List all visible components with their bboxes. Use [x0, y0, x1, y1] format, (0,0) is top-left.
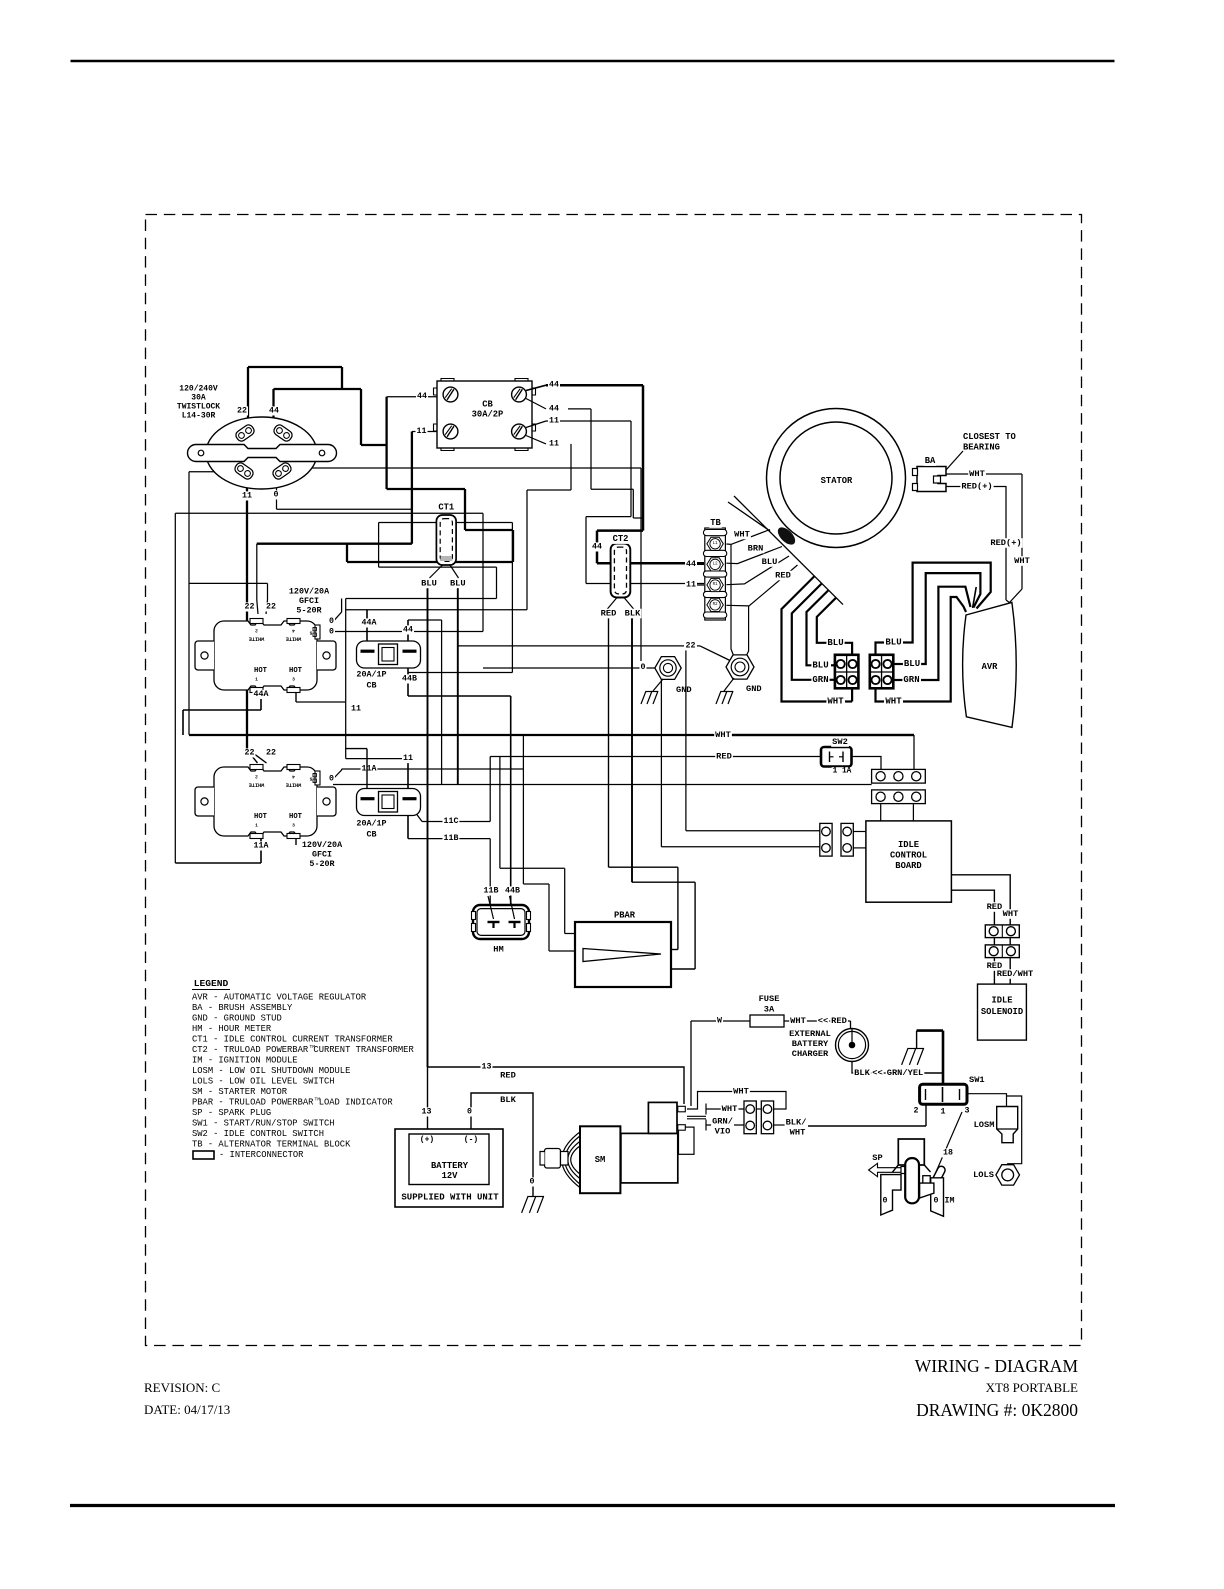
svg-text:DATE: 04/17/13: DATE: 04/17/13 [144, 1402, 230, 1417]
svg-text:VIO: VIO [715, 1127, 731, 1137]
svg-text:11B: 11B [444, 834, 459, 843]
svg-text:XT8 PORTABLE: XT8 PORTABLE [986, 1380, 1078, 1395]
svg-text:GRN/YEL: GRN/YEL [887, 1068, 924, 1078]
svg-text:11B: 11B [484, 887, 499, 896]
svg-text:5: 5 [309, 630, 312, 636]
svg-text:SOLENOID: SOLENOID [981, 1007, 1023, 1017]
svg-text:HM: HM [493, 945, 503, 955]
svg-text:20A/1P: 20A/1P [356, 819, 386, 829]
svg-text:WHT: WHT [969, 469, 985, 479]
svg-text:120V/20A: 120V/20A [289, 587, 330, 597]
svg-text:WHT: WHT [790, 1128, 806, 1138]
svg-text:22: 22 [266, 749, 276, 758]
svg-text:SM - STARTER MOTOR: SM - STARTER MOTOR [192, 1087, 288, 1097]
svg-text:WIRING - DIAGRAM: WIRING - DIAGRAM [915, 1356, 1079, 1376]
svg-text:44: 44 [403, 626, 413, 635]
svg-text:3: 3 [292, 677, 295, 683]
svg-text:2: 2 [255, 774, 258, 780]
svg-text:HOT: HOT [254, 813, 268, 821]
svg-text:SW2: SW2 [832, 737, 848, 747]
svg-text:18: 18 [943, 1149, 953, 1158]
svg-text:TWISTLOCK: TWISTLOCK [177, 403, 220, 412]
svg-text:WHT: WHT [715, 730, 731, 740]
svg-text:11C: 11C [444, 817, 459, 826]
svg-text:WHITE: WHITE [249, 636, 265, 642]
svg-text:2: 2 [255, 628, 258, 634]
svg-text:BLU: BLU [762, 557, 778, 567]
svg-text:4: 4 [292, 774, 295, 780]
svg-text:WHT: WHT [827, 697, 844, 707]
svg-text:12V: 12V [442, 1171, 459, 1181]
svg-text:30A: 30A [191, 394, 206, 403]
svg-text:L14-30R: L14-30R [182, 412, 216, 421]
svg-text:AVR - AUTOMATIC VOLTAGE REGULA: AVR - AUTOMATIC VOLTAGE REGULATOR [192, 993, 367, 1003]
svg-text:0: 0 [329, 617, 334, 626]
svg-text:CT2: CT2 [613, 534, 629, 544]
svg-text:BEARING: BEARING [963, 443, 1000, 453]
svg-text:30A/2P: 30A/2P [472, 410, 504, 420]
svg-text:L2: L2 [713, 562, 718, 566]
svg-text:GRN: GRN [903, 675, 919, 685]
svg-text:4: 4 [292, 628, 295, 634]
svg-text:DRAWING #: 0K2800: DRAWING #: 0K2800 [916, 1400, 1078, 1420]
svg-text:11A: 11A [362, 765, 377, 774]
svg-text:EXTERNAL: EXTERNAL [789, 1029, 831, 1039]
svg-text:11: 11 [403, 754, 413, 763]
svg-text:RED: RED [831, 1016, 847, 1026]
svg-text:SW1: SW1 [969, 1075, 985, 1085]
svg-text:11: 11 [549, 417, 559, 426]
svg-text:44B: 44B [402, 675, 417, 684]
svg-text:R2: R2 [713, 603, 718, 607]
svg-text:LEGEND: LEGEND [194, 978, 229, 989]
svg-text:HOT: HOT [254, 667, 268, 675]
svg-text:0: 0 [329, 775, 334, 784]
svg-text:R1: R1 [713, 583, 718, 587]
svg-text:44: 44 [549, 381, 559, 390]
svg-text:TM: TM [310, 1044, 316, 1050]
svg-text:RED: RED [775, 571, 791, 581]
svg-text:44: 44 [549, 404, 559, 413]
svg-text:CB: CB [366, 681, 376, 691]
svg-text:13: 13 [482, 1063, 492, 1072]
svg-text:L1: L1 [713, 542, 718, 546]
svg-text:11A: 11A [254, 842, 269, 851]
svg-text:22: 22 [686, 641, 696, 650]
svg-text:BATTERY: BATTERY [792, 1039, 829, 1049]
svg-text:BLU: BLU [421, 578, 437, 588]
svg-text:PBAR: PBAR [614, 911, 636, 921]
svg-text:HOT: HOT [289, 667, 303, 675]
svg-text:13: 13 [422, 1108, 432, 1117]
svg-text:LOLS: LOLS [973, 1170, 994, 1180]
svg-text:BATTERY: BATTERY [431, 1161, 469, 1171]
svg-text:RED/WHT: RED/WHT [997, 969, 1034, 979]
svg-text:0: 0 [467, 1108, 472, 1117]
svg-text:GND: GND [746, 684, 762, 694]
svg-text:RED: RED [500, 1071, 516, 1081]
svg-text:0: 0 [274, 491, 279, 500]
svg-text:PBAR - TRULOAD POWERBAR LOAD I: PBAR - TRULOAD POWERBAR LOAD INDICATOR [192, 1098, 393, 1108]
svg-text:IDLE: IDLE [991, 996, 1012, 1006]
svg-text:GFCI: GFCI [299, 596, 319, 606]
svg-text:(-): (-) [464, 1136, 478, 1145]
svg-text:WHT: WHT [1014, 556, 1030, 566]
svg-text:RED(+): RED(+) [961, 482, 992, 492]
svg-text:WHT: WHT [790, 1016, 806, 1026]
svg-text:- INTERCONNECTOR: - INTERCONNECTOR [219, 1150, 304, 1160]
svg-text:BA: BA [925, 456, 936, 466]
svg-text:44A: 44A [362, 619, 377, 628]
svg-text:IM - IGNITION MODULE: IM - IGNITION MODULE [192, 1056, 298, 1066]
svg-text:BLK: BLK [500, 1095, 516, 1105]
svg-text:44: 44 [686, 560, 696, 569]
svg-text:CB: CB [482, 400, 493, 410]
svg-text:CONTROL: CONTROL [890, 851, 927, 861]
svg-text:STATOR: STATOR [821, 476, 853, 486]
svg-text:22: 22 [245, 749, 255, 758]
svg-text:BLU: BLU [827, 638, 843, 648]
svg-text:WHITE: WHITE [249, 782, 265, 788]
svg-text:1: 1 [255, 677, 258, 683]
svg-text:RED: RED [601, 609, 617, 619]
svg-text:GFCI: GFCI [312, 850, 332, 860]
svg-text:3: 3 [292, 823, 295, 829]
svg-text:TB - ALTERNATOR TERMINAL BLOCK: TB - ALTERNATOR TERMINAL BLOCK [192, 1140, 351, 1150]
svg-text:CT1: CT1 [438, 503, 454, 513]
svg-text:IDLE: IDLE [898, 840, 919, 850]
svg-text:LOLS - LOW OIL LEVEL SWITCH: LOLS - LOW OIL LEVEL SWITCH [192, 1077, 335, 1087]
svg-text:2: 2 [914, 1107, 919, 1116]
svg-text:5-20R: 5-20R [309, 859, 335, 869]
svg-text:11: 11 [351, 705, 361, 714]
svg-text:22: 22 [245, 603, 255, 612]
svg-text:44A: 44A [254, 690, 269, 699]
svg-text:0: 0 [329, 628, 334, 637]
svg-text:0: 0 [883, 1197, 888, 1206]
svg-text:<<: << [872, 1068, 882, 1078]
svg-text:WHT: WHT [733, 1087, 749, 1097]
svg-text:SP: SP [872, 1153, 882, 1163]
svg-text:11: 11 [549, 439, 559, 448]
svg-text:22: 22 [237, 407, 247, 416]
svg-text:BLU: BLU [812, 660, 828, 670]
svg-text:BLU: BLU [904, 659, 920, 669]
svg-text:(+): (+) [420, 1136, 434, 1145]
svg-text:GND - GROUND STUD: GND - GROUND STUD [192, 1014, 282, 1024]
svg-text:11: 11 [686, 581, 696, 590]
svg-text:44B: 44B [505, 887, 520, 896]
svg-text:1 1A: 1 1A [833, 768, 852, 776]
svg-text:3: 3 [965, 1107, 970, 1116]
svg-text:120/240V: 120/240V [179, 385, 218, 394]
svg-text:1: 1 [255, 823, 258, 829]
svg-text:120V/20A: 120V/20A [302, 840, 343, 850]
svg-text:REVISION: C: REVISION: C [144, 1380, 220, 1395]
svg-text:1: 1 [941, 1108, 946, 1117]
svg-text:0: 0 [530, 1178, 535, 1187]
svg-text:BA - BRUSH ASSEMBLY: BA - BRUSH ASSEMBLY [192, 1003, 293, 1013]
svg-text:CT1 - IDLE CONTROL CURRENT TRA: CT1 - IDLE CONTROL CURRENT TRANSFORMER [192, 1035, 393, 1045]
svg-text:0: 0 [934, 1197, 939, 1206]
svg-text:W: W [717, 1017, 722, 1026]
svg-text:<<: << [818, 1016, 828, 1026]
svg-text:BLK: BLK [854, 1068, 870, 1078]
svg-text:CT2 - TRULOAD POWERBAR CURRENT: CT2 - TRULOAD POWERBAR CURRENT TRANSFORM… [192, 1045, 414, 1055]
svg-text:BLU: BLU [885, 638, 901, 648]
svg-text:CLOSEST TO: CLOSEST TO [963, 432, 1016, 442]
svg-text:HM - HOUR METER: HM - HOUR METER [192, 1024, 272, 1034]
svg-text:CB: CB [366, 830, 376, 840]
svg-text:AVR: AVR [982, 662, 999, 672]
svg-text:BOARD: BOARD [895, 861, 921, 871]
svg-text:TM: TM [315, 1097, 321, 1103]
svg-text:CHARGER: CHARGER [792, 1049, 829, 1059]
svg-text:SM: SM [595, 1155, 606, 1165]
svg-text:GND: GND [676, 685, 692, 695]
svg-text:RED: RED [987, 902, 1003, 912]
svg-text:20A/1P: 20A/1P [356, 670, 386, 680]
svg-text:BLK: BLK [625, 609, 641, 619]
svg-text:IM: IM [945, 1197, 955, 1206]
svg-text:RED(+): RED(+) [990, 538, 1021, 548]
svg-text:WHITE: WHITE [286, 636, 302, 642]
svg-text:BRN: BRN [748, 544, 764, 554]
svg-text:FUSE: FUSE [759, 994, 780, 1004]
svg-text:WHT: WHT [722, 1104, 738, 1114]
svg-text:GRN/: GRN/ [712, 1117, 733, 1127]
svg-text:LOSM: LOSM [974, 1120, 995, 1130]
svg-text:SUPPLIED WITH UNIT: SUPPLIED WITH UNIT [401, 1193, 499, 1203]
svg-text:BLU: BLU [450, 578, 466, 588]
svg-text:GRN: GRN [812, 675, 828, 685]
svg-text:BLK/: BLK/ [786, 1118, 807, 1128]
svg-text:SW2 - IDLE CONTROL SWITCH: SW2 - IDLE CONTROL SWITCH [192, 1129, 324, 1139]
svg-text:SP - SPARK PLUG: SP - SPARK PLUG [192, 1108, 271, 1118]
svg-text:RED: RED [716, 752, 732, 762]
svg-text:3A: 3A [764, 1005, 775, 1015]
svg-text:44: 44 [417, 392, 427, 401]
svg-text:TB: TB [710, 518, 721, 528]
svg-text:5-20R: 5-20R [296, 606, 322, 616]
svg-text:5: 5 [309, 776, 312, 782]
svg-text:44: 44 [269, 407, 279, 416]
svg-text:44: 44 [592, 543, 602, 552]
svg-text:WHITE: WHITE [286, 782, 302, 788]
svg-text:11: 11 [417, 427, 427, 436]
svg-text:SW1 - START/RUN/STOP SWITCH: SW1 - START/RUN/STOP SWITCH [192, 1119, 335, 1129]
svg-text:WHT: WHT [1003, 909, 1019, 919]
svg-text:LOSM - LOW OIL SHUTDOWN MODULE: LOSM - LOW OIL SHUTDOWN MODULE [192, 1066, 350, 1076]
svg-text:HOT: HOT [289, 813, 303, 821]
svg-text:22: 22 [266, 603, 276, 612]
svg-text:11: 11 [242, 492, 252, 501]
svg-text:0: 0 [641, 663, 646, 672]
svg-text:WHT: WHT [885, 697, 902, 707]
svg-text:WHT: WHT [734, 530, 750, 540]
